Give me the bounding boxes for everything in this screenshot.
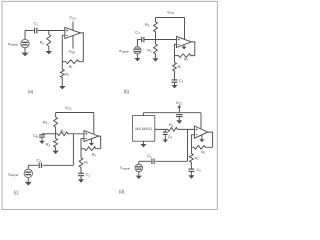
svg-text:C1: C1: [36, 157, 41, 163]
svg-text:VCC: VCC: [69, 15, 76, 21]
svg-text:Rf: Rf: [201, 150, 205, 156]
svg-text:Rf: Rf: [92, 152, 96, 158]
svg-text:Rb: Rb: [40, 40, 45, 46]
svg-text:VCC: VCC: [65, 105, 72, 111]
svg-text:VCC: VCC: [167, 9, 174, 15]
svg-text:esignal: esignal: [120, 165, 130, 171]
svg-text:Rx: Rx: [169, 122, 174, 128]
svg-text:R1: R1: [43, 119, 48, 125]
svg-text:(d): (d): [119, 189, 125, 194]
svg-text:Ri: Ri: [195, 156, 199, 162]
svg-text:esignal: esignal: [8, 41, 18, 47]
svg-text:R2: R2: [147, 48, 152, 54]
svg-text:Ri: Ri: [84, 159, 88, 165]
svg-text:MA 345/01: MA 345/01: [135, 127, 152, 131]
svg-text:(c): (c): [14, 190, 19, 195]
svg-text:(a): (a): [28, 89, 34, 94]
svg-text:R2: R2: [46, 142, 51, 148]
svg-text:(b): (b): [124, 89, 130, 94]
svg-text:R1: R1: [145, 22, 150, 28]
svg-text:C5: C5: [168, 134, 173, 140]
svg-text:C2: C2: [86, 172, 91, 178]
svg-text:esignal: esignal: [8, 171, 18, 177]
svg-text:C2: C2: [196, 167, 201, 173]
svg-text:Rf: Rf: [184, 56, 188, 62]
svg-text:C1: C1: [34, 21, 39, 27]
svg-text:Ri: Ri: [178, 64, 182, 70]
svg-text:C1: C1: [147, 153, 152, 159]
svg-text:CB: CB: [33, 133, 38, 139]
svg-text:VEE: VEE: [69, 49, 76, 55]
svg-text:Ri: Ri: [65, 72, 69, 78]
svg-text:esignal: esignal: [119, 48, 129, 54]
svg-text:C2: C2: [179, 78, 184, 84]
svg-text:C1: C1: [135, 29, 140, 35]
svg-text:Rx: Rx: [60, 128, 65, 134]
svg-text:Rf: Rf: [69, 64, 73, 70]
